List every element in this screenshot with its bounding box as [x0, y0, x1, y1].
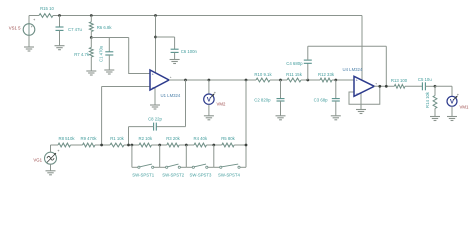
svg-text:R7 4.7k: R7 4.7k [74, 52, 90, 57]
svg-text:C5 10u: C5 10u [418, 77, 432, 82]
svg-text:R5 80k: R5 80k [221, 136, 235, 141]
svg-text:+: + [31, 25, 33, 29]
svg-text:−: − [356, 92, 358, 96]
svg-text:R15 10: R15 10 [40, 6, 54, 11]
svg-text:+: + [152, 72, 154, 76]
svg-text:C6 100n: C6 100n [181, 49, 198, 54]
svg-text:R9 470k: R9 470k [80, 136, 97, 141]
svg-text:R1 10k: R1 10k [110, 136, 124, 141]
svg-text:R12 33k: R12 33k [318, 72, 335, 77]
svg-text:VM2: VM2 [217, 102, 226, 107]
svg-text:C1 470u: C1 470u [99, 45, 104, 62]
svg-text:VS1 5: VS1 5 [9, 26, 21, 31]
svg-text:R8 510k: R8 510k [58, 136, 75, 141]
svg-text:C2 820p: C2 820p [254, 98, 271, 103]
svg-text:R3 20k: R3 20k [166, 136, 180, 141]
svg-text:R6 6.8k: R6 6.8k [97, 25, 113, 30]
svg-text:C3 68p: C3 68p [314, 98, 328, 103]
svg-text:SW-SPST2: SW-SPST2 [162, 172, 184, 177]
svg-text:C4 680p: C4 680p [286, 61, 303, 66]
svg-text:R4 40k: R4 40k [193, 136, 207, 141]
svg-text:SW-SPST3: SW-SPST3 [190, 172, 212, 177]
svg-text:R11 15k: R11 15k [286, 72, 303, 77]
svg-text:R13 100: R13 100 [391, 78, 408, 83]
svg-text:+: + [356, 79, 358, 83]
svg-text:VM1: VM1 [460, 105, 469, 110]
svg-text:U1 LM324: U1 LM324 [161, 93, 181, 98]
svg-text:SW-SPST1: SW-SPST1 [132, 172, 154, 177]
svg-text:R14 10k: R14 10k [425, 91, 430, 108]
svg-text:C7 47u: C7 47u [68, 27, 82, 32]
svg-text:−: − [152, 86, 154, 90]
svg-text:+: + [170, 75, 172, 79]
svg-text:SW-SPST4: SW-SPST4 [218, 172, 240, 177]
svg-text:C8 22p: C8 22p [148, 116, 162, 121]
svg-text:R2 10k: R2 10k [138, 136, 152, 141]
svg-text:U4 LM324: U4 LM324 [343, 67, 363, 72]
svg-text:+: + [375, 82, 377, 86]
svg-text:R10 9.1k: R10 9.1k [254, 72, 272, 77]
svg-text:VG1: VG1 [33, 158, 42, 163]
